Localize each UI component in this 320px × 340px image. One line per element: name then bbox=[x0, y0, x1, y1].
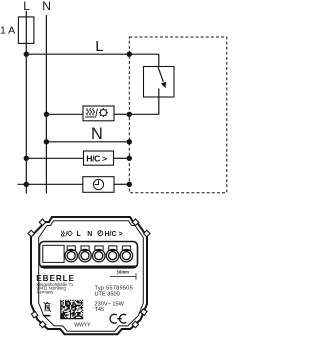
fixing claw tab top-right lower bbox=[144, 230, 151, 237]
terminal block display window bbox=[43, 245, 64, 262]
terminal screw 1 bbox=[65, 249, 78, 262]
wire L horizontal row to thermostat L terminal bbox=[26, 53, 159, 55]
terminal screw 5 slot bbox=[122, 246, 130, 251]
fixing claw tab bottom-left upper bbox=[31, 312, 37, 318]
terminal screw 2 slot bbox=[81, 246, 89, 251]
junction H/C row on L vertical bbox=[24, 156, 29, 161]
fixing claw tab bottom-right lower bbox=[132, 321, 139, 328]
svg-text:Germany: Germany bbox=[37, 290, 55, 295]
relay switch S1 actuating arrow bbox=[158, 66, 164, 82]
terminal node N on device boundary bbox=[127, 139, 132, 144]
fixing claw tab bottom-left lower bbox=[39, 321, 46, 328]
svg-text:16mm: 16mm bbox=[117, 269, 130, 274]
svg-text:L: L bbox=[95, 38, 103, 55]
svg-text:N: N bbox=[87, 231, 92, 238]
terminal node load on device boundary bbox=[127, 112, 132, 117]
dashed device boundary box bbox=[129, 37, 227, 193]
timer clock symbol bbox=[93, 179, 103, 189]
svg-text:L: L bbox=[77, 231, 82, 238]
svg-text:N: N bbox=[91, 125, 103, 143]
relay switch S1 box bbox=[144, 67, 175, 98]
terminal screw 1 slot bbox=[67, 246, 75, 251]
wire H/C row right bbox=[114, 157, 130, 159]
terminal node L on device boundary bbox=[127, 52, 132, 57]
fixing claw tab top-left outer bbox=[39, 219, 46, 226]
wire L vertical from supply through fuse to junction bbox=[25, 11, 27, 54]
terminal screw 3 bbox=[93, 249, 106, 262]
svg-text:UTE 3500: UTE 3500 bbox=[95, 292, 120, 298]
strip length dimension line bbox=[110, 275, 136, 277]
terminal node clock on device boundary bbox=[127, 182, 132, 187]
load box heating/cooling bbox=[83, 106, 114, 121]
terminal label heating/cooling symbol bbox=[61, 231, 73, 237]
data matrix QR code bbox=[60, 300, 83, 319]
terminal label clock symbol bbox=[98, 231, 103, 236]
H/C selector box bbox=[84, 151, 114, 165]
timer box bbox=[83, 177, 114, 193]
svg-text:T45: T45 bbox=[95, 307, 105, 313]
wire clock row left stub bbox=[18, 183, 83, 185]
wire clock row right bbox=[114, 183, 129, 185]
junction N row on N vertical bbox=[44, 139, 49, 144]
junction below fuse bbox=[24, 52, 29, 57]
svg-text:Typ 55789505: Typ 55789505 bbox=[95, 285, 133, 291]
load symbol cooling sun bbox=[99, 108, 108, 117]
svg-text:L: L bbox=[23, 0, 30, 13]
fixing claw tab bottom-right upper bbox=[141, 309, 147, 315]
terminal block bottom shadow edge bbox=[41, 266, 136, 268]
terminal screw 5 bbox=[120, 249, 132, 262]
svg-text:H/C >: H/C > bbox=[105, 231, 123, 238]
junction clock row on L vertical bbox=[24, 182, 29, 187]
wire N row bbox=[46, 141, 129, 143]
relay switch S1 output stub bbox=[158, 89, 160, 98]
load symbol heating squiggles bbox=[85, 108, 95, 117]
wire from relay output down and left to load terminal bbox=[129, 97, 159, 114]
terminal screw 4 slot bbox=[109, 246, 117, 251]
terminal screw 3 slot bbox=[95, 246, 103, 251]
fuse F1 body bbox=[18, 17, 34, 44]
wire heater row from N to load box bbox=[46, 113, 83, 115]
terminal block outline bbox=[40, 242, 138, 268]
svg-text:N: N bbox=[42, 0, 51, 13]
svg-text:H/C >: H/C > bbox=[86, 154, 107, 164]
svg-text:WWYY: WWYY bbox=[74, 322, 91, 328]
junction heater row on N bbox=[44, 112, 49, 117]
device inner housing outline bbox=[39, 221, 144, 332]
fixing claw tab top-right outer bbox=[132, 219, 139, 226]
device outer housing outline bbox=[31, 217, 147, 334]
terminal screw 4 bbox=[106, 249, 119, 262]
wire L vertical lower section bbox=[25, 54, 27, 194]
terminal node H/C on device boundary bbox=[127, 156, 132, 161]
wire N vertical from supply down bbox=[45, 15, 47, 194]
terminal screw 2 bbox=[79, 249, 92, 262]
wire load box to terminal bbox=[114, 113, 129, 115]
wire H/C row left bbox=[26, 157, 83, 159]
wire into relay switch from L terminal bbox=[158, 54, 160, 66]
load symbol slash bbox=[96, 108, 98, 117]
WEEE crossed-out bin symbol bbox=[44, 302, 51, 317]
svg-text:1 A: 1 A bbox=[0, 25, 15, 37]
CE mark bbox=[110, 314, 126, 323]
fixing claw tab top-left lower bbox=[28, 230, 35, 237]
